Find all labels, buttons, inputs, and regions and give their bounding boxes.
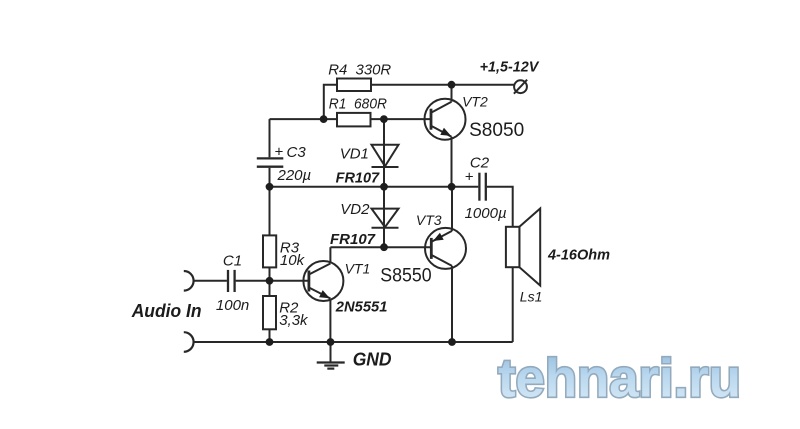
svg-text:10k: 10k <box>280 252 306 269</box>
svg-text:1000µ: 1000µ <box>465 205 507 222</box>
svg-text:VT2: VT2 <box>462 94 488 110</box>
svg-text:3,3k: 3,3k <box>279 312 309 329</box>
svg-text:VD2: VD2 <box>340 201 370 218</box>
svg-text:100n: 100n <box>216 297 249 314</box>
svg-text:4-16Ohm: 4-16Ohm <box>547 247 610 264</box>
svg-text:VD1: VD1 <box>340 146 369 163</box>
svg-text:tehnari.ru: tehnari.ru <box>498 349 741 409</box>
svg-text:C3: C3 <box>287 144 307 161</box>
svg-text:+: + <box>465 168 474 185</box>
svg-text:R1 680R: R1 680R <box>329 96 387 113</box>
svg-text:Ls1: Ls1 <box>520 288 543 304</box>
svg-text:Audio In: Audio In <box>131 300 202 321</box>
svg-text:S8050: S8050 <box>469 119 524 141</box>
svg-text:+1,5-12V: +1,5-12V <box>480 59 541 76</box>
svg-text:FR107: FR107 <box>330 231 376 248</box>
svg-text:VT3: VT3 <box>416 212 442 228</box>
svg-text:VT1: VT1 <box>345 261 371 277</box>
svg-text:2N5551: 2N5551 <box>335 298 388 315</box>
svg-text:C1: C1 <box>223 252 242 269</box>
svg-text:R4 330R: R4 330R <box>328 62 391 79</box>
svg-text:GND: GND <box>353 349 392 370</box>
svg-text:S8550: S8550 <box>380 265 431 287</box>
svg-text:FR107: FR107 <box>336 169 380 186</box>
svg-text:220µ: 220µ <box>277 167 312 184</box>
svg-text:+: + <box>274 143 283 160</box>
